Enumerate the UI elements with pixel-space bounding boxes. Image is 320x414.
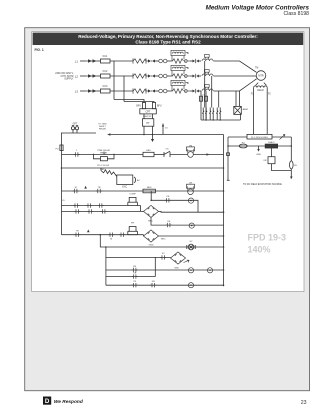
- svg-text:FU: FU: [294, 165, 297, 167]
- wire L1 fuse to breaker: [110, 60, 133, 62]
- svg-text:GND: GND: [256, 154, 261, 156]
- svg-text:240/120 V: 240/120 V: [143, 116, 154, 118]
- wire PT secondary right down: [152, 126, 154, 134]
- wire field lead F2 down: [266, 88, 268, 135]
- svg-text:RES: RES: [147, 187, 152, 189]
- meter switch pair 1: [202, 108, 207, 114]
- rung 4 contact a: [73, 203, 79, 207]
- svg-text:23: 23: [301, 400, 307, 406]
- left terminal box: [227, 153, 230, 156]
- wire L1 CT to reactor: [167, 60, 171, 62]
- node junction dot on bus: [143, 134, 145, 136]
- svg-text:FIG. 1: FIG. 1: [35, 48, 44, 52]
- rung 3b wire: [151, 191, 198, 212]
- disconnect switch L2: [86, 74, 97, 78]
- rung 9 wire: [106, 276, 155, 278]
- surge box: [265, 144, 277, 148]
- meter switch pair 1 drop from L1: [203, 61, 206, 120]
- motor to field brush ticks: [256, 83, 267, 86]
- run contact pole L3: [193, 89, 199, 93]
- wire L1 to fuse: [97, 60, 101, 62]
- bridge REC2 output dot: [223, 235, 225, 237]
- rung 3 wire: [62, 190, 224, 192]
- svg-text:FU2: FU2: [103, 70, 108, 73]
- svg-text:RHEO: RHEO: [268, 142, 275, 144]
- contactor M pole L1: [133, 58, 155, 63]
- run contact pole L1: [193, 59, 199, 63]
- svg-text:TR: TR: [133, 281, 136, 283]
- dc riser arrowhead: [290, 177, 293, 180]
- sub rail top dot: [105, 246, 107, 248]
- svg-text:BFU: BFU: [157, 106, 162, 108]
- control fuse BFU2: [152, 103, 155, 109]
- rung 8 right dot: [223, 269, 225, 271]
- reactor X1 section A: [171, 50, 191, 63]
- node dot left on rung: [227, 145, 229, 147]
- rung 3 arrow mark: [84, 186, 87, 189]
- metering drop wire: [162, 124, 164, 135]
- rung 5 contact b: [87, 209, 93, 213]
- dc fuse oval: [290, 161, 294, 169]
- svg-text:PT: PT: [146, 122, 150, 125]
- svg-text:FPD 19-3: FPD 19-3: [248, 233, 287, 243]
- wire tap from L1: [113, 61, 115, 100]
- rung 5 contact c: [101, 209, 107, 213]
- pilot light 3: [188, 268, 193, 273]
- field relay box: [268, 157, 275, 164]
- rung 4 wire: [62, 205, 128, 207]
- meter switch pair 2: [209, 108, 214, 114]
- wire L3 lead-in: [80, 90, 86, 92]
- CT shorting block B: [205, 96, 208, 101]
- ground PT connector: [72, 125, 78, 133]
- fuse FU3: [101, 89, 111, 93]
- exciter box feed wires: [236, 91, 240, 106]
- svg-text:TM: TM: [255, 68, 258, 70]
- svg-text:TR: TR: [98, 187, 101, 189]
- wire tap jumper upper: [114, 100, 144, 103]
- rung 10 contact a: [132, 283, 138, 287]
- meter switch pair 3: [216, 108, 221, 114]
- svg-text:AC: AC: [137, 179, 140, 182]
- wire L3 to CTs: [155, 90, 159, 92]
- svg-text:FU1: FU1: [103, 55, 108, 58]
- control bus wire left segment: [62, 132, 97, 134]
- wire relay to bottom: [272, 164, 292, 171]
- CT pair L3: [159, 89, 167, 93]
- wire L3 link: [199, 90, 201, 92]
- exciter control box: [117, 175, 133, 185]
- rung 2 left dot: [61, 167, 63, 169]
- pilot light 4: [207, 268, 212, 273]
- svg-text:AMM: AMM: [243, 108, 248, 111]
- reactor X2 section B: [202, 70, 213, 76]
- svg-text:M: M: [110, 239, 112, 241]
- wire L1 reactor link: [190, 60, 193, 62]
- bridge REC3 arrow: [184, 260, 190, 263]
- rung 9 riser: [154, 257, 156, 276]
- wire L3 CT to reactor: [167, 90, 171, 92]
- control bus arrow into note: [107, 133, 110, 135]
- potential transformer PT box: [143, 119, 154, 127]
- rung 1 branch tick: [103, 152, 105, 155]
- wire L1 lead-in: [80, 60, 86, 62]
- control fuse BFU1: [142, 103, 145, 109]
- svg-text:L1: L1: [75, 59, 79, 63]
- ground PT symbol circles: [71, 127, 74, 130]
- rung 10 contact b: [150, 283, 156, 287]
- wire L2 link: [199, 75, 201, 77]
- reactor X3 section B: [202, 85, 213, 91]
- svg-text:REC: REC: [161, 238, 166, 240]
- svg-text:SUPPLY: SUPPLY: [64, 78, 74, 81]
- sub rail: [105, 247, 107, 285]
- rung 4 link to bridge: [137, 206, 140, 212]
- svg-text:FR: FR: [133, 266, 136, 268]
- bridge REC2 input link: [143, 235, 145, 236]
- field winding: [254, 86, 268, 88]
- wire CPT to PT left: [143, 114, 145, 119]
- svg-text:BFU: BFU: [136, 106, 141, 108]
- rung 5b wire: [154, 224, 224, 226]
- fuse FU1: [101, 59, 111, 63]
- bridge REC1 bottom drop: [151, 217, 154, 225]
- rung 2 wire: [62, 167, 224, 169]
- wire L2 fuse to breaker: [110, 75, 133, 77]
- reactor X2 section A: [171, 65, 191, 78]
- svg-text:Reduced-Voltage, Primary React: Reduced-Voltage, Primary Reactor, Non-Re…: [78, 34, 258, 39]
- rectifier bridge REC2: [144, 230, 159, 242]
- control bus wire mid segment: [110, 134, 223, 136]
- svg-text:FAULT: FAULT: [99, 125, 106, 128]
- metering drop arrowhead: [162, 124, 164, 127]
- svg-text:FLD DISCH RES: FLD DISCH RES: [251, 137, 268, 139]
- svg-text:RES: RES: [100, 169, 105, 171]
- svg-text:FR: FR: [131, 223, 134, 225]
- ladder right rail: [223, 135, 225, 287]
- wire L2 CT to reactor: [167, 75, 171, 77]
- wire L3 reactor link: [190, 90, 193, 92]
- exciter box diagonal: [234, 106, 242, 114]
- wire surge to relay box: [271, 148, 273, 157]
- svg-text:GND: GND: [174, 267, 179, 269]
- rung 3 contact b: [96, 189, 102, 193]
- svg-text:CR: CR: [133, 273, 137, 275]
- node dot right on rung: [291, 145, 293, 147]
- rung 6 coil bracket: [128, 227, 138, 235]
- CT pair L1: [159, 59, 167, 63]
- rung 8 contact: [132, 268, 138, 272]
- rung 8 wire: [106, 269, 224, 271]
- meter switch pair 3 drop from L3: [217, 91, 220, 120]
- svg-text:RELAY: RELAY: [100, 151, 108, 154]
- svg-text:COMP: COMP: [129, 194, 136, 196]
- wire L3 fuse to breaker: [110, 90, 133, 92]
- rung 3b dot: [150, 200, 152, 202]
- svg-text:TR: TR: [76, 231, 79, 233]
- rung 4 contact b: [86, 203, 92, 207]
- exciter feed resistor: [101, 170, 117, 177]
- right dc riser upper: [290, 137, 292, 161]
- rung 5 wire: [62, 210, 144, 212]
- node X1 junction dot: [152, 134, 154, 136]
- rung 3 right dot: [223, 190, 225, 192]
- svg-text:FU3: FU3: [103, 85, 108, 88]
- rung 2 right dot: [223, 167, 225, 169]
- wire tap from L2: [123, 76, 125, 102]
- svg-text:140%: 140%: [248, 245, 271, 255]
- exciter rectifier box: [234, 106, 242, 114]
- CT bus junction dots: [205, 119, 206, 120]
- timer branch box: [100, 157, 107, 161]
- bridge REC1 output wire: [159, 210, 224, 213]
- pilot light 1: [188, 198, 193, 203]
- svg-text:CR: CR: [167, 221, 171, 223]
- rung 3 contact a: [73, 189, 79, 193]
- sub feed drop: [100, 235, 223, 247]
- svg-text:Class 8198: Class 8198: [284, 11, 310, 17]
- ladder left rail: [61, 133, 63, 235]
- bridge REC2 output wire: [159, 235, 224, 237]
- rung 1 timer parallel branch: [94, 155, 115, 159]
- rung 1 knife switch: [164, 151, 170, 157]
- field discharge resistor box: [247, 134, 272, 139]
- wire L1 to CTs: [155, 60, 159, 62]
- left terminal riser: [227, 137, 229, 180]
- contactor M pole L3: [133, 88, 155, 93]
- svg-text:M: M: [75, 187, 77, 189]
- reactor X3 section A: [171, 80, 191, 93]
- wire L2 reactor link: [190, 75, 193, 77]
- fuse FU2: [101, 74, 111, 78]
- wire L2 to CTs: [155, 75, 159, 77]
- reactor X1 section B: [202, 55, 213, 61]
- CT bus riser: [239, 114, 241, 120]
- rung 1 wire to rail: [193, 154, 223, 156]
- rung 1 wire to coil: [170, 154, 188, 156]
- svg-text:We Respond: We Respond: [54, 399, 84, 405]
- wire L1 link: [199, 60, 201, 62]
- rung 10 right dot: [223, 284, 225, 286]
- bridge REC1 output dot: [223, 211, 225, 213]
- wire L2 lead-in: [80, 75, 86, 77]
- fuse FU oval: [239, 144, 247, 148]
- svg-text:MTR: MTR: [258, 75, 263, 78]
- rung 3b contact: [165, 198, 171, 202]
- motor M1: [256, 71, 266, 81]
- rung 5 contact a: [74, 209, 80, 213]
- wire tap jumper lower: [124, 102, 154, 103]
- svg-text:TO DC FIELD EXCITATION SOURCE: TO DC FIELD EXCITATION SOURCE: [243, 183, 282, 186]
- svg-text:FR: FR: [264, 160, 267, 162]
- rung 7 contact: [160, 255, 166, 259]
- exciter box bracket: [134, 177, 135, 183]
- meter switch pair 2 drop from L2: [210, 76, 213, 120]
- svg-text:L2: L2: [75, 74, 79, 78]
- sub feed right dot: [223, 246, 225, 248]
- rectifier bridge REC1: [144, 205, 159, 217]
- rung 6 contact a: [74, 233, 80, 237]
- svg-text:CPT: CPT: [146, 111, 151, 114]
- rung 6 contact c: [119, 233, 125, 237]
- right dc riser lower: [290, 169, 292, 177]
- rung 1 resistor box: [143, 152, 154, 156]
- exciter feed tap: [100, 168, 102, 171]
- rung 1 arrow mark: [207, 153, 210, 156]
- rung 9 contact: [132, 274, 138, 278]
- svg-text:FU: FU: [242, 142, 245, 144]
- rung 6 wire: [62, 234, 144, 236]
- wire CPT to PT right: [152, 114, 154, 119]
- rung 6 coil feet: [128, 234, 138, 236]
- rung 6 dot: [100, 234, 102, 236]
- rung 1 start contact: [74, 152, 80, 156]
- discharge contactor arrow: [280, 135, 285, 140]
- svg-text:GPT: GPT: [73, 124, 78, 126]
- coil CR with aux box: [187, 184, 195, 194]
- svg-text:FIELD: FIELD: [257, 90, 264, 92]
- wire L2 to motor: [214, 75, 257, 77]
- ground stub on rung: [258, 146, 260, 149]
- svg-text:L3: L3: [75, 89, 79, 93]
- wire L3 to motor diagonal: [214, 79, 257, 91]
- CT common bus: [201, 119, 240, 121]
- svg-text:CR: CR: [166, 196, 170, 198]
- rung 6 arrow mark: [87, 230, 90, 233]
- svg-text:RELAY: RELAY: [99, 128, 107, 131]
- rung 5b contact: [166, 223, 172, 227]
- left terminal bottom tick: [227, 179, 230, 181]
- control power transformer CPT box: [140, 109, 157, 114]
- svg-text:FR: FR: [152, 281, 155, 283]
- wire L3 to fuse: [97, 90, 101, 92]
- rectifier bridge REC3: [171, 252, 186, 264]
- control fuse on rail: [60, 145, 63, 151]
- CT pair L2: [159, 74, 167, 78]
- CT shorting block A: [200, 96, 203, 101]
- contactor M pole L2: [133, 73, 155, 78]
- svg-text:115 V 60 HZ: 115 V 60 HZ: [97, 165, 110, 167]
- field discharge top wire: [228, 136, 247, 138]
- pilot light 2: [189, 223, 194, 228]
- svg-text:RES: RES: [146, 150, 151, 152]
- svg-text:CR: CR: [189, 183, 193, 185]
- svg-text:TM: TM: [189, 145, 192, 147]
- rung 1 wire: [62, 154, 144, 156]
- rung 1 branch dots: [93, 154, 94, 155]
- ground lead from X2: [152, 135, 154, 140]
- rung 4 coil feet: [128, 205, 138, 207]
- disconnect switch L3: [86, 89, 97, 93]
- svg-text:GND: GND: [149, 245, 154, 247]
- svg-text:CS: CS: [165, 148, 169, 150]
- rung 3 series box: [143, 189, 155, 193]
- rung 10 wire: [106, 284, 224, 286]
- rung 4 coil bracket: [128, 197, 138, 205]
- footer Square D logo box: [43, 397, 51, 405]
- disconnect switch L1: [86, 59, 97, 63]
- outer gray frame: [25, 28, 310, 391]
- rung 4 contact c: [98, 203, 104, 207]
- wire PT secondary left down: [143, 126, 145, 134]
- rung 6 contact b: [108, 233, 114, 237]
- wire field lead F1 down: [253, 88, 255, 135]
- sub feed device symbol: [187, 244, 195, 250]
- field supply rung: [228, 145, 291, 147]
- ground stub arrow: [257, 149, 260, 152]
- svg-text:EXC: EXC: [122, 186, 127, 188]
- svg-text:D: D: [45, 398, 50, 405]
- wire L2 to fuse: [97, 75, 101, 77]
- pilot light 5: [188, 283, 193, 288]
- ground arrow: [151, 139, 154, 142]
- rung 1 wire to knife: [154, 154, 164, 156]
- CT secondary lead A: [200, 91, 202, 120]
- svg-text:FU: FU: [56, 148, 59, 150]
- svg-text:Class 8198 Type RS1 and RS2: Class 8198 Type RS1 and RS2: [135, 40, 201, 45]
- coil M with aux box: [187, 147, 195, 157]
- CT secondary lead B: [205, 91, 207, 120]
- svg-text:TIME DELAY: TIME DELAY: [97, 149, 110, 152]
- rung 7 wire: [106, 256, 171, 258]
- wire L1 to motor diagonal: [214, 61, 257, 72]
- wire resistor to right corner: [272, 136, 291, 138]
- inner white schematic panel: [32, 32, 304, 292]
- black title bar: [33, 33, 304, 45]
- run contact pole L2: [193, 74, 199, 78]
